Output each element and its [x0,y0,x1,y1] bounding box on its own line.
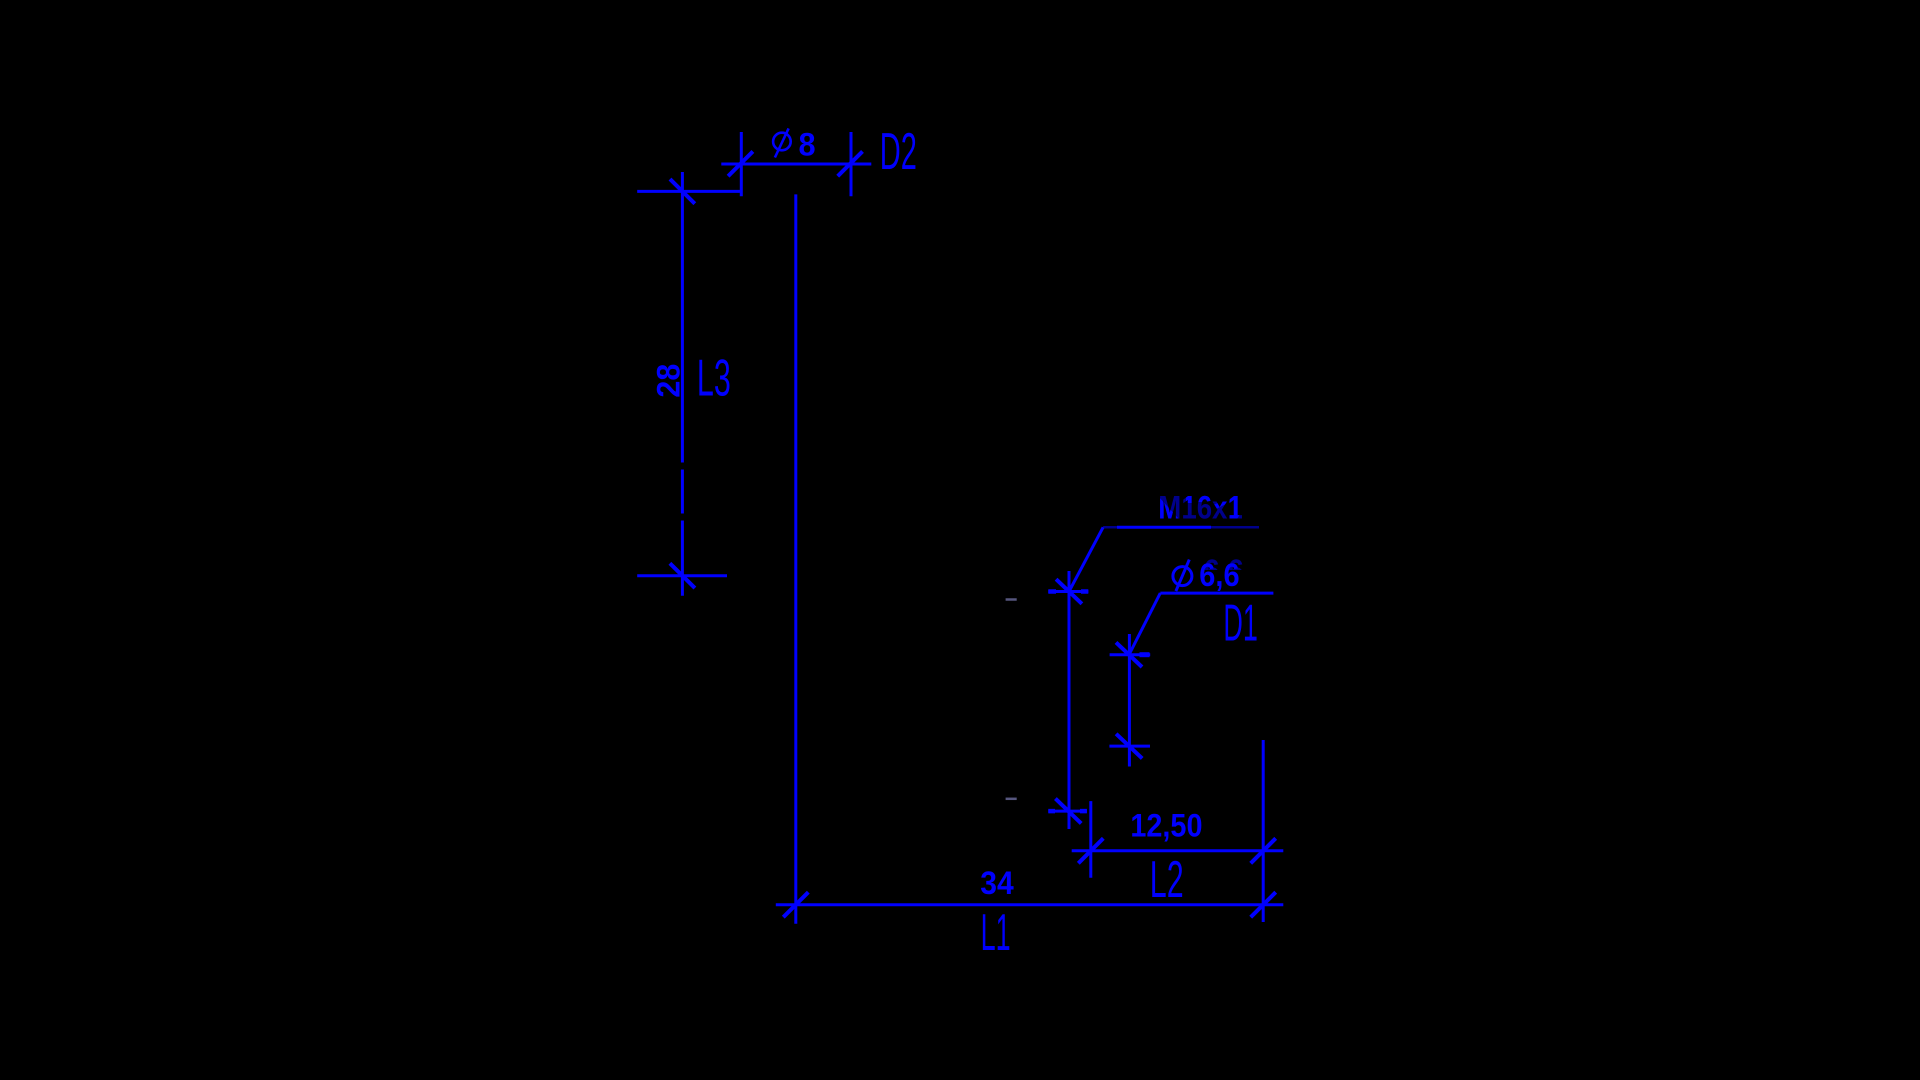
leader line of M16x1 (navy) [1103,526,1259,529]
svg-text:L2: L2 [1150,851,1184,908]
centre extension line of hole D2 / left extension of L1 [794,194,797,923]
svg-text:34: 34 [980,865,1014,901]
dimension L2 tick right [1251,838,1276,863]
dimension D2 (Ø8) extension line left [740,132,743,196]
dimension D2 (Ø8) dimension line [721,163,871,166]
point marker cross Ø6,6 bottom: horizontal [1109,745,1150,748]
point marker cross M16x1: vertical line down [1068,571,1071,829]
dimension L1 tick left [783,892,808,917]
svg-text:6,6: 6,6 [1199,557,1239,593]
point marker cross Ø6,6: arrow chunk [1140,652,1150,657]
leader line of Ø6,6 [1160,592,1273,595]
point marker cross M16x1: end chunks [1048,589,1056,594]
value text 6,6 navy offset copy [1204,553,1244,589]
leader line of M16x1 (bright overlay) [1117,526,1211,529]
point marker cross Ø6,6: horizontal [1110,653,1151,656]
dimension L2 dimension line [1072,849,1284,852]
diameter symbol of Ø6,6 [1173,560,1192,592]
shared extension line right of L2/L1 [1262,740,1265,922]
dimension L3 (28) top extension line [637,190,740,193]
dimension D2 tick right [838,151,863,176]
leader diagonal of M16x1 [1069,527,1103,591]
point marker cross Ø6,6: vertical line [1128,634,1131,767]
diameter symbol of Ø8 [773,128,791,157]
dimension L2 (12,50) extension line left [1089,801,1092,878]
svg-text:D1: D1 [1223,594,1258,652]
svg-text:L3: L3 [697,349,731,406]
point marker cross Ø6,6 bottom: slash [1116,734,1142,759]
dimension L1 (34) dimension line [776,903,1284,906]
svg-text:L1: L1 [981,903,1011,961]
point marker cross M16x1: slash [1056,579,1082,604]
point marker cross M16x1: horizontal [1048,590,1088,593]
dimension L1 tick right [1251,892,1276,917]
point marker cross M16x1 bottom: horizontal [1048,810,1087,813]
dimension D2 tick left [728,151,753,176]
svg-text:28: 28 [651,364,687,398]
point marker cross Ø6,6: slash [1116,642,1142,667]
svg-text:12,50: 12,50 [1130,808,1202,844]
dimension L3 tick top [670,179,695,204]
point marker cross M16x1 bottom: end chunks [1048,809,1055,814]
leader M16x1 text bright fragments [1158,491,1243,526]
point marker cross M16x1 bottom: slash [1055,799,1081,824]
dimension L3 (28) bottom extension line [637,574,727,577]
dimension L2 tick left [1078,838,1103,863]
dimension L3 dimension line (with small gaps) [681,172,684,463]
stray dash upper [1006,598,1017,601]
dimension D2 (Ø8) extension line right [850,132,853,196]
dimension L3 tick bottom [670,563,695,588]
svg-text:D2: D2 [880,122,917,180]
stray dash lower [1006,798,1017,801]
leader diagonal of Ø6,6 [1129,593,1160,654]
svg-text:8: 8 [799,127,816,163]
